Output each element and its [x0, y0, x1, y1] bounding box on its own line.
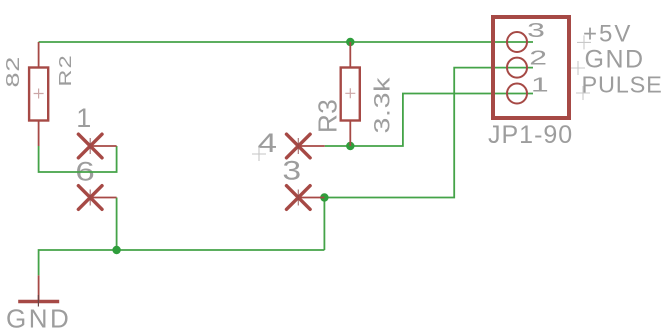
svg-text:R2: R2 — [55, 54, 75, 87]
wire contact 4 to connector pin 2 — [324, 68, 533, 198]
wire contact 3 to R3 bottom then to connector pin 1 — [325, 94, 533, 147]
svg-text:1: 1 — [531, 74, 549, 96]
origin cross at pin GND — [571, 61, 585, 75]
svg-text:R3: R3 — [312, 99, 342, 133]
junction dot at bottom net — [112, 246, 120, 254]
resistor R2 origin cross — [34, 89, 44, 99]
resistor R3 origin cross — [345, 88, 355, 98]
junction dot at R3 top — [346, 38, 354, 46]
svg-text:JP1-90: JP1-90 — [488, 121, 573, 149]
contact pin 3 X mark — [287, 186, 325, 210]
wire top net from R2 to connector pin 3 — [39, 41, 533, 43]
junction dot at contact 4 — [320, 193, 328, 201]
connector pin 3 circle — [507, 32, 527, 52]
resistor R2 top pin — [38, 42, 40, 68]
svg-text:+5V: +5V — [583, 21, 632, 48]
wire contact 4 junction down to bottom net — [323, 198, 325, 251]
resistor R2 bottom pin — [38, 121, 40, 147]
resistor R3 bottom pin — [349, 121, 351, 147]
contact pin 1 X mark — [78, 134, 116, 158]
svg-text:GND: GND — [585, 46, 645, 74]
origin cross at pin +5V — [577, 35, 591, 49]
resistor R3 body — [341, 68, 360, 121]
contact pin 4 X mark — [287, 134, 325, 158]
svg-text:PULSE: PULSE — [582, 71, 663, 97]
connector JP1-90 box — [493, 17, 569, 118]
ground symbol bar — [18, 300, 59, 304]
ground pin — [38, 275, 40, 301]
svg-text:GND: GND — [6, 304, 71, 331]
origin cross at pin PULSE — [576, 86, 590, 100]
connector pin 2 circle — [507, 58, 527, 78]
resistor R3 top pin — [349, 42, 351, 68]
svg-text:82: 82 — [3, 56, 23, 88]
wire contact 6 down to bottom net — [116, 198, 118, 251]
svg-text:2: 2 — [529, 46, 547, 68]
ground origin line — [37, 295, 39, 307]
contact pin 6 X mark — [78, 186, 116, 210]
wire bottom net — [39, 250, 325, 275]
junction dot at R3 bottom — [346, 142, 354, 150]
svg-text:1: 1 — [76, 103, 91, 133]
wire R2 bottom loop to contact 1 — [39, 146, 117, 172]
connector pin 1 circle — [507, 84, 527, 104]
svg-text:3: 3 — [527, 19, 545, 41]
resistor R2 body — [29, 68, 48, 121]
svg-text:3.3k: 3.3k — [371, 77, 395, 134]
origin cross near pin 4 — [252, 147, 266, 161]
svg-text:3: 3 — [282, 156, 301, 186]
